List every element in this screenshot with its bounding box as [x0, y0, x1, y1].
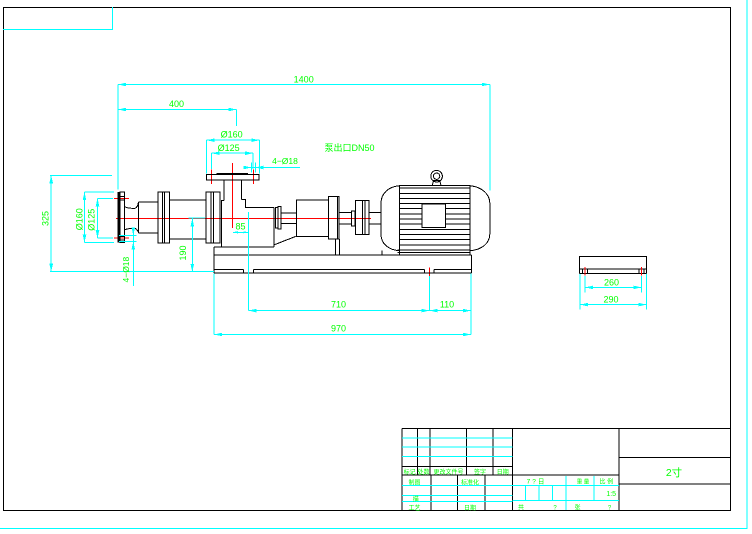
svg-text:7?日: 7?日 [527, 478, 547, 486]
motor right end bell [470, 186, 490, 251]
svg-text:制图: 制图 [408, 479, 420, 487]
dimension 110 [430, 274, 472, 335]
svg-text:日期: 日期 [497, 468, 509, 476]
svg-text:处数: 处数 [417, 468, 429, 476]
svg-text:710: 710 [331, 300, 346, 310]
dimension 85 [233, 212, 249, 311]
dimension top phi125 [212, 143, 254, 169]
dimension 710 [248, 276, 429, 312]
baseplate [214, 247, 471, 273]
paper edge bottom line [0, 528, 747, 530]
discharge neck [224, 180, 274, 208]
svg-text:970: 970 [331, 324, 346, 334]
title block weight scale grid [513, 476, 620, 512]
stator ring flange 1 [158, 192, 170, 243]
suction flange bolt centerline top [114, 197, 129, 199]
svg-text:4−Ø18: 4−Ø18 [272, 156, 298, 166]
support leg [336, 239, 340, 255]
svg-text:2寸: 2寸 [666, 466, 682, 479]
svg-text:325: 325 [41, 211, 51, 226]
bearing housing [296, 200, 328, 236]
bearing flange disc [329, 197, 340, 240]
svg-text:张: 张 [574, 504, 580, 512]
motor left end bell [381, 186, 399, 251]
svg-text:85: 85 [235, 222, 245, 232]
svg-text:日期: 日期 [464, 504, 476, 512]
dimension left phi160 [74, 192, 114, 242]
leader 4-phi18 bottom left [119, 227, 137, 286]
baseplate anchor bolt centerline right [429, 267, 431, 276]
svg-text:260: 260 [604, 278, 619, 288]
stator ring flange 2 [206, 192, 220, 243]
title block name area [619, 457, 730, 484]
baseplate anchor hole right [425, 269, 434, 273]
svg-text:重 量: 重 量 [577, 478, 590, 486]
paper edge right line [746, 0, 748, 529]
svg-text:Ø125: Ø125 [218, 143, 240, 153]
dimension 290 [580, 274, 647, 309]
seal gland [276, 207, 281, 230]
stator barrel [170, 200, 207, 239]
baseplate anchor bolt centerline left [248, 268, 250, 278]
title block frame [402, 429, 730, 511]
suction flange [117, 192, 124, 242]
suction neck [124, 202, 138, 233]
svg-text:描: 描 [413, 495, 419, 503]
pump pedestal line [214, 246, 274, 248]
bracket diagonal [274, 236, 296, 244]
discharge flange bolt centerline right [252, 169, 254, 184]
discharge body [221, 200, 274, 247]
svg-text:比 例: 比 例 [599, 478, 613, 486]
svg-text:标记: 标记 [404, 468, 416, 476]
svg-text:1400: 1400 [294, 75, 314, 85]
leader 4-phi18 top [243, 156, 300, 173]
discharge port red centerline [232, 163, 234, 228]
dimension 400 [118, 99, 237, 126]
svg-text:110: 110 [440, 300, 454, 310]
end view plate bolt centerline left [584, 267, 586, 276]
svg-text:290: 290 [603, 295, 618, 305]
svg-text:Ø125: Ø125 [87, 209, 97, 231]
svg-text:Ø160: Ø160 [221, 130, 243, 140]
top-left corner zone box [3, 7, 113, 30]
svg-text:更改文件号: 更改文件号 [433, 468, 463, 476]
svg-text:签字: 签字 [474, 468, 486, 476]
svg-text:400: 400 [169, 99, 184, 109]
discharge flange bolt centerline left [211, 169, 213, 184]
end view plate [580, 256, 647, 273]
coupling shaft stub [339, 211, 355, 226]
main red centerline [116, 218, 371, 220]
coupling [356, 201, 370, 235]
title block signature area [402, 475, 513, 512]
title block revision table [402, 429, 619, 477]
svg-text:4−Ø18: 4−Ø18 [121, 256, 131, 282]
svg-text:工艺: 工艺 [408, 504, 420, 512]
dimension 970 [214, 274, 471, 337]
motor foot [381, 250, 383, 255]
dimension 260 [585, 276, 641, 293]
motor eye bolt [431, 170, 443, 185]
svg-text:标准化: 标准化 [461, 479, 479, 487]
svg-text:1:5: 1:5 [606, 491, 616, 498]
dimension left phi125 [87, 198, 113, 238]
baseplate anchor hole left [244, 269, 254, 273]
dimension 190 [178, 218, 205, 272]
end view plate bolt centerline right [641, 267, 643, 276]
suction barrel [139, 202, 158, 233]
motor shaft [369, 212, 381, 224]
motor nameplate [422, 204, 446, 228]
dimension 325 [41, 175, 215, 271]
suction flange bolt centerline bottom [114, 237, 129, 239]
discharge flange [207, 173, 260, 180]
dimension 1400 [118, 75, 490, 191]
svg-text:Ø160: Ø160 [74, 208, 84, 230]
svg-text:共: 共 [518, 504, 524, 512]
motor fin block [397, 186, 470, 256]
svg-text:泵出口DN50: 泵出口DN50 [324, 142, 374, 153]
dimension top phi160 [207, 130, 260, 174]
drive shaft [281, 213, 297, 224]
svg-text:190: 190 [178, 245, 188, 260]
